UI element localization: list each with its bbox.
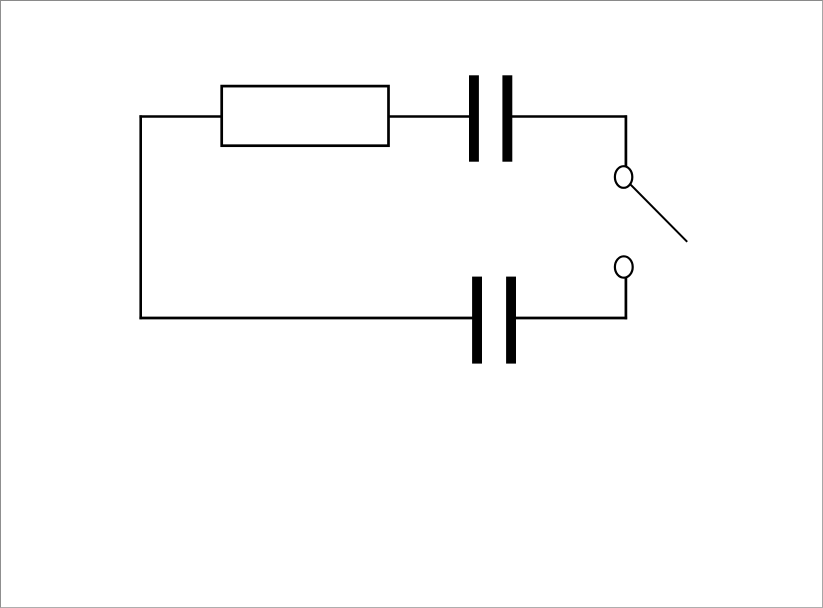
wire bottom horizontal right segment — [515, 317, 627, 320]
wire resistor to capacitor C1 — [388, 115, 471, 117]
switch S1 blade (open) — [629, 183, 687, 241]
wire left vertical rail — [139, 115, 142, 319]
wire right vertical down to switch terminal — [625, 115, 628, 166]
capacitor C1 plate right — [502, 75, 512, 161]
resistor R1 — [222, 86, 389, 146]
wire capacitor C1 to switch corner — [511, 115, 627, 117]
wire bottom horizontal left segment — [139, 317, 474, 320]
capacitor C1 plate left — [469, 75, 479, 161]
capacitor C2 plate left — [472, 277, 482, 364]
switch S1 terminal A (open circle) — [615, 166, 632, 188]
wire switch terminal B down to bottom rail — [625, 278, 628, 320]
switch S1 terminal B (open circle) — [615, 256, 633, 277]
capacitor C2 plate right — [506, 277, 516, 364]
wire top-left horizontal (node between R and left rail) — [139, 115, 223, 117]
